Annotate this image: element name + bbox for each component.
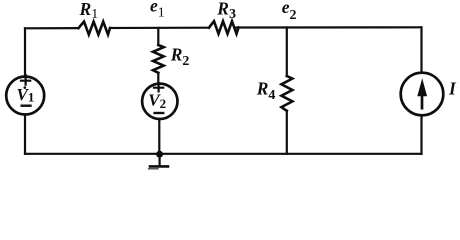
node e1 wire down to R2 bbox=[157, 28, 159, 45]
wire R4 to bottom wire bbox=[286, 111, 288, 154]
resistor R2 bbox=[153, 45, 164, 73]
svg-text:R3: R3 bbox=[216, 0, 236, 22]
current source I circle bbox=[401, 73, 444, 116]
voltage source V1 circle bbox=[6, 77, 44, 115]
svg-text:e2: e2 bbox=[282, 0, 297, 23]
svg-text:V2: V2 bbox=[148, 91, 166, 112]
junction dot at V2/ground node bbox=[156, 151, 163, 158]
wire left vertical upper (top-left corner to V1 top) bbox=[24, 28, 26, 76]
V1 minus sign bbox=[22, 104, 31, 106]
svg-text:I: I bbox=[448, 78, 457, 98]
wire left vertical lower (V1 bottom to bottom-left corner) bbox=[24, 115, 26, 154]
voltage source V2 circle bbox=[142, 84, 177, 119]
wire right vertical upper (top-right corner to I top) bbox=[420, 27, 422, 73]
current source I arrow shaft bbox=[421, 94, 424, 108]
svg-text:R1: R1 bbox=[79, 0, 99, 22]
ground bar 2 (faint scan mark) bbox=[149, 168, 159, 170]
V2 plus sign bbox=[154, 83, 163, 91]
resistor R4 bbox=[281, 76, 292, 111]
current source I arrow head bbox=[417, 78, 427, 96]
resistor R3 bbox=[209, 21, 239, 34]
node e2 wire down to R4 bbox=[286, 28, 288, 77]
V1 plus sign bbox=[21, 75, 30, 85]
wire right vertical lower (I bottom to bottom-right corner) bbox=[420, 115, 422, 154]
wire bottom horizontal bbox=[25, 153, 422, 155]
resistor R1 bbox=[79, 22, 111, 35]
V1 phasor overdot bbox=[24, 86, 27, 89]
svg-text:R4: R4 bbox=[256, 78, 276, 103]
svg-text:V1: V1 bbox=[17, 85, 35, 105]
wire top horizontal (full span, slight scan slope) bbox=[25, 27, 421, 28]
ground bar bbox=[150, 165, 168, 168]
V2 minus sign bbox=[155, 112, 164, 114]
wire V2 bottom to bottom wire bbox=[158, 119, 160, 154]
svg-text:R2: R2 bbox=[170, 44, 190, 69]
svg-text:e1: e1 bbox=[150, 0, 165, 21]
ground stub bbox=[159, 154, 161, 166]
wire R2 to V2 top bbox=[157, 73, 159, 84]
